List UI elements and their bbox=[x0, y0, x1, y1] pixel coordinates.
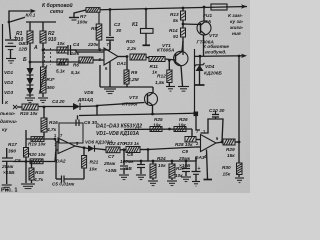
svg-text:DA2: DA2 bbox=[56, 159, 66, 165]
svg-text:R19 10к: R19 10к bbox=[28, 142, 46, 147]
svg-text:+10Б: +10Б bbox=[105, 168, 117, 174]
svg-text:КЛ.1: КЛ.1 bbox=[26, 13, 36, 18]
svg-text:R9: R9 bbox=[131, 70, 137, 76]
svg-text:VD4: VD4 bbox=[205, 64, 215, 70]
svg-text:С5: С5 bbox=[15, 158, 21, 164]
svg-text:VD1–VD8 КД103А: VD1–VD8 КД103А bbox=[96, 131, 139, 137]
svg-text:ния: ния bbox=[232, 32, 241, 37]
svg-text:жига-: жига- bbox=[229, 26, 244, 31]
svg-text:R20 10к: R20 10к bbox=[28, 152, 46, 157]
svg-text:К обмотке: К обмотке bbox=[203, 43, 229, 50]
svg-text:R12: R12 bbox=[157, 74, 166, 80]
svg-text:С9: С9 bbox=[182, 149, 188, 154]
svg-text:ку: ку bbox=[2, 128, 7, 133]
svg-text:10к: 10к bbox=[158, 163, 166, 168]
svg-text:R26: R26 bbox=[179, 117, 188, 122]
svg-text:R3*: R3* bbox=[47, 77, 56, 83]
svg-text:100мк: 100мк bbox=[120, 159, 134, 164]
svg-text:С7: С7 bbox=[108, 154, 114, 160]
svg-text:220к: 220к bbox=[87, 42, 99, 48]
svg-text:VD5: VD5 bbox=[84, 90, 94, 96]
svg-text:R25: R25 bbox=[154, 117, 163, 122]
svg-text:С10 30: С10 30 bbox=[209, 108, 225, 114]
svg-text:1мк: 1мк bbox=[71, 51, 80, 57]
svg-text:VT3: VT3 bbox=[129, 95, 138, 101]
svg-text:12В: 12В bbox=[19, 47, 28, 53]
svg-text:КД206Б: КД206Б bbox=[204, 71, 222, 77]
svg-text:R17: R17 bbox=[8, 142, 17, 148]
svg-text:5,1к: 5,1к bbox=[56, 69, 65, 74]
svg-text:R6: R6 bbox=[73, 63, 79, 68]
svg-text:VD2: VD2 bbox=[4, 80, 14, 85]
svg-text:360: 360 bbox=[47, 85, 55, 91]
svg-text:100к: 100к bbox=[77, 20, 88, 26]
svg-text:датчи-: датчи- bbox=[0, 119, 18, 125]
svg-text:С5 0,01мк: С5 0,01мк bbox=[52, 182, 75, 187]
svg-text:DA1–DA3 К553УД2: DA1–DA3 К553УД2 bbox=[96, 124, 142, 130]
svg-text:×6В: ×6В bbox=[123, 166, 132, 171]
svg-text:Д814Д: Д814Д bbox=[77, 97, 93, 103]
svg-text:GB1: GB1 bbox=[19, 41, 29, 47]
svg-text:DA1: DA1 bbox=[117, 61, 126, 66]
svg-text:С8: С8 bbox=[127, 152, 133, 157]
svg-text:VD3: VD3 bbox=[4, 90, 14, 95]
svg-text:R10: R10 bbox=[126, 39, 135, 45]
svg-text:С2: С2 bbox=[114, 22, 120, 28]
svg-text:91: 91 bbox=[173, 34, 179, 39]
svg-text:R7: R7 bbox=[80, 14, 86, 20]
svg-text:ку за-: ку за- bbox=[230, 20, 244, 25]
svg-text:910: 910 bbox=[48, 37, 57, 43]
svg-text:R28 10к: R28 10к bbox=[175, 142, 193, 147]
svg-text:×15Б: ×15Б bbox=[3, 170, 15, 176]
svg-text:К бортовой: К бортовой bbox=[42, 2, 74, 9]
svg-text:R16: R16 bbox=[49, 120, 58, 126]
svg-text:VD1: VD1 bbox=[4, 70, 14, 75]
svg-text:R24: R24 bbox=[157, 156, 166, 161]
svg-text:5к: 5к bbox=[173, 18, 179, 23]
svg-text:1,5к: 1,5к bbox=[155, 80, 165, 86]
svg-text:VT2: VT2 bbox=[209, 33, 218, 39]
svg-text:390: 390 bbox=[8, 149, 16, 155]
svg-text:R29: R29 bbox=[226, 147, 235, 152]
svg-text:20мк: 20мк bbox=[103, 161, 116, 167]
svg-text:возбужд.: возбужд. bbox=[205, 49, 227, 56]
svg-text:R5: R5 bbox=[59, 62, 65, 67]
svg-text:15к: 15к bbox=[223, 172, 231, 177]
svg-text:R23 1к: R23 1к bbox=[124, 141, 140, 146]
svg-text:20мк: 20мк bbox=[178, 156, 191, 161]
svg-text:4,7к: 4,7к bbox=[33, 177, 44, 183]
svg-text:А: А bbox=[33, 45, 38, 51]
svg-text:R21: R21 bbox=[90, 160, 99, 166]
svg-text:R22 470: R22 470 bbox=[107, 141, 125, 146]
svg-text:×10Б: ×10Б bbox=[179, 163, 191, 168]
svg-text:Б: Б bbox=[23, 57, 27, 63]
svg-text:R13: R13 bbox=[170, 12, 179, 17]
svg-text:10к: 10к bbox=[57, 41, 65, 46]
svg-text:R8: R8 bbox=[91, 26, 97, 32]
svg-text:Рис. 1: Рис. 1 bbox=[1, 188, 18, 194]
svg-text:С4 20: С4 20 bbox=[52, 99, 65, 104]
svg-text:2,2М: 2,2М bbox=[127, 77, 140, 83]
svg-text:К1: К1 bbox=[132, 22, 138, 28]
svg-text:5,1к: 5,1к bbox=[71, 70, 80, 75]
svg-text:10к: 10к bbox=[89, 167, 97, 173]
svg-text:15к: 15к bbox=[227, 153, 235, 158]
svg-text:2,2к: 2,2к bbox=[126, 46, 137, 52]
svg-text:R15 10к: R15 10к bbox=[20, 111, 38, 116]
svg-text:R18: R18 bbox=[35, 170, 44, 176]
svg-text:R11: R11 bbox=[150, 64, 159, 70]
svg-text:С4: С4 bbox=[73, 42, 79, 48]
svg-text:К зам-: К зам- bbox=[228, 13, 243, 19]
svg-text:пьезо-: пьезо- bbox=[0, 112, 16, 117]
svg-text:сети: сети bbox=[50, 9, 64, 15]
svg-text:20мк: 20мк bbox=[1, 164, 14, 170]
svg-text:КТ306Г: КТ306Г bbox=[122, 102, 140, 108]
svg-text:VT1: VT1 bbox=[162, 43, 171, 49]
svg-text:R30: R30 bbox=[222, 165, 231, 170]
svg-text:R14: R14 bbox=[169, 28, 178, 33]
svg-text:30: 30 bbox=[116, 28, 122, 34]
